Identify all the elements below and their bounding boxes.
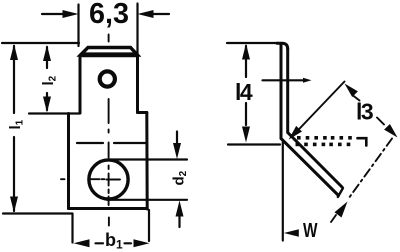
vertical centerline <box>108 35 110 226</box>
label d2 <box>171 170 190 185</box>
l3 bend arrow <box>289 126 302 140</box>
tab right edge <box>136 56 139 113</box>
top reference line <box>227 42 278 44</box>
d2 top arrow <box>176 132 178 147</box>
dotted line end hook <box>358 138 367 145</box>
label l2 <box>40 75 59 85</box>
l1 dimension line <box>13 46 15 211</box>
l4 bottom arrow <box>242 127 250 143</box>
l4 top arrow <box>242 44 250 60</box>
svg-text:l4: l4 <box>235 79 253 105</box>
d2 bottom arrow <box>178 213 180 227</box>
6,3 left arrow <box>42 13 64 15</box>
top reference line <box>2 42 79 44</box>
hidden tab dotted lines <box>296 136 352 146</box>
horizontal centerline <box>61 178 120 180</box>
l2 dimension line <box>46 47 48 110</box>
svg-text:W: W <box>303 220 318 242</box>
svg-text:l3: l3 <box>356 99 373 125</box>
mounting hole <box>89 160 128 199</box>
left shoulder line <box>29 112 80 114</box>
tab outer (left) wall and flange outer face <box>281 44 339 196</box>
6,3 right arrow <box>151 13 169 15</box>
l3 lower-right arrow <box>377 118 384 125</box>
l4 dimension line <box>245 46 247 125</box>
body right edge <box>145 113 148 210</box>
l3 extension line from bend <box>292 82 345 137</box>
right shoulder line <box>138 111 147 114</box>
b1 right arrow <box>134 239 150 247</box>
body left edge <box>67 114 70 209</box>
b1 right extension line <box>148 210 150 241</box>
svg-text:6,3: 6,3 <box>89 0 129 30</box>
l1 bottom reference line <box>3 212 73 214</box>
l3 dash-dot extension line <box>349 139 393 199</box>
tab top cap <box>277 43 288 49</box>
d2 bottom extension line <box>107 199 187 201</box>
l2 bottom arrow <box>43 97 51 113</box>
hole position line with arrow <box>263 79 305 81</box>
l2 top arrow <box>43 45 51 61</box>
l3 tip arrow <box>335 202 348 218</box>
dimple hole <box>100 71 115 86</box>
W arrow <box>284 229 299 236</box>
l3 upper-left arrow <box>345 84 358 98</box>
l1 bottom arrow <box>10 197 18 213</box>
tab inner (right) wall and flange inner face <box>288 49 342 187</box>
l1 top arrow <box>10 44 18 60</box>
tab tip chamfer <box>81 48 138 56</box>
tab left edge <box>79 56 82 113</box>
l4 bottom reference line <box>228 143 280 145</box>
b1 left arrow <box>74 239 90 247</box>
bend line (dashed) <box>77 142 147 144</box>
6,3 left extension line <box>77 5 79 47</box>
label l1 <box>7 119 26 129</box>
flange tip cap <box>338 188 343 197</box>
body bottom edge <box>69 207 148 210</box>
b1 left extension line <box>71 214 73 243</box>
d2 top extension line <box>109 158 188 160</box>
W extension line <box>282 142 284 241</box>
6,3 right extension line <box>136 4 138 56</box>
